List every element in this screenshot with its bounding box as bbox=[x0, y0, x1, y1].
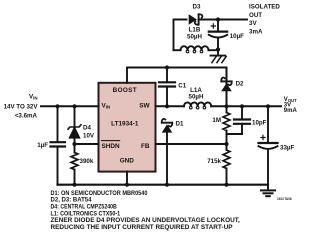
wire: output rail bbox=[211, 105, 281, 107]
svg-text:D1: ON SEMICONDUCTOR MBR0540: D1: ON SEMICONDUCTOR MBR0540 bbox=[51, 191, 149, 197]
wire: D3 cathode to isolated out bbox=[199, 19, 248, 21]
svg-text:D4: CENTRAL CMPZ5240B: D4: CENTRAL CMPZ5240B bbox=[51, 205, 118, 211]
resistor R 390k bbox=[74, 144, 76, 153]
capacitor C 1uF bbox=[51, 141, 66, 143]
diode D3 bbox=[189, 14, 203, 25]
svg-text:OUT: OUT bbox=[249, 12, 262, 19]
svg-text:<3.6mA: <3.6mA bbox=[15, 113, 38, 120]
svg-text:1µF: 1µF bbox=[37, 142, 48, 149]
node: L1B / 10uF / gnd junction bbox=[216, 47, 220, 51]
node: 33uF tap on rail bbox=[266, 104, 270, 108]
svg-text:14V TO 32V: 14V TO 32V bbox=[4, 103, 39, 110]
node: D4 / 390k / SHDN junction bbox=[72, 142, 76, 146]
svg-text:3V: 3V bbox=[249, 20, 257, 27]
node: 1uF tap bbox=[55, 104, 59, 108]
svg-text:390k: 390k bbox=[80, 158, 94, 165]
wire: boost top run to D2 bbox=[127, 68, 227, 107]
svg-text:50µH: 50µH bbox=[189, 94, 204, 101]
resistor R 715k bbox=[223, 150, 230, 168]
svg-text:10pF: 10pF bbox=[252, 119, 267, 126]
wire: SHDN pin bbox=[75, 143, 99, 145]
wire: BOOST riser bbox=[126, 68, 128, 83]
svg-text:715k: 715k bbox=[207, 158, 221, 165]
svg-text:FB: FB bbox=[141, 143, 150, 150]
ground symbol main bbox=[267, 185, 269, 190]
svg-text:BOOST: BOOST bbox=[113, 87, 137, 94]
IC U1 LT1934-1 body bbox=[99, 83, 156, 172]
wire: IC GND pin bbox=[126, 172, 128, 185]
notes text block bbox=[51, 191, 241, 231]
capacitor C 10pF bbox=[241, 106, 243, 119]
svg-text:ISOLATED: ISOLATED bbox=[249, 4, 280, 11]
svg-text:33µF: 33µF bbox=[280, 145, 294, 152]
capacitor C1 bbox=[166, 68, 168, 83]
svg-text:VIN: VIN bbox=[29, 93, 38, 100]
svg-text:D4: D4 bbox=[83, 124, 91, 131]
svg-text:9mA: 9mA bbox=[284, 108, 298, 114]
node: GND pin on rail bbox=[125, 183, 129, 187]
inductor L1B bbox=[174, 49, 181, 51]
wire: D4 lower lead bbox=[74, 138, 76, 144]
wire: FB pin bbox=[156, 143, 227, 145]
svg-text:1M: 1M bbox=[212, 117, 221, 124]
svg-text:D3: D3 bbox=[193, 3, 201, 10]
wire: ground rail bbox=[58, 184, 269, 186]
svg-text:ZENER DIODE D4 PROVIDES AN UND: ZENER DIODE D4 PROVIDES AN UNDERVOLTAGE … bbox=[51, 218, 241, 224]
wire: L1B left riser bbox=[174, 20, 187, 51]
svg-text:SHDN: SHDN bbox=[102, 143, 120, 150]
svg-text:50µH: 50µH bbox=[187, 33, 202, 40]
wire: D1 anode to ground rail bbox=[166, 132, 168, 184]
zener diode D4 bbox=[68, 125, 81, 138]
svg-text:D2: D2 bbox=[236, 81, 244, 88]
svg-text:3mA: 3mA bbox=[249, 28, 263, 35]
inductor L1A bbox=[184, 102, 211, 106]
svg-text:GND: GND bbox=[120, 157, 135, 164]
node: D4 tap bbox=[72, 104, 76, 108]
node: D1 on ground rail bbox=[165, 183, 169, 187]
svg-text:LT1934-1: LT1934-1 bbox=[111, 121, 139, 128]
svg-text:10V: 10V bbox=[83, 132, 95, 139]
wire: D4 upper lead bbox=[74, 106, 76, 127]
svg-text:D1: D1 bbox=[176, 121, 184, 128]
diode D2 bbox=[221, 78, 232, 92]
wire: 1uF upper lead bbox=[57, 106, 59, 142]
wire: 1uF lower lead to ground rail bbox=[57, 147, 59, 185]
node: 715k on ground rail bbox=[224, 183, 228, 187]
svg-text:C1: C1 bbox=[178, 82, 186, 89]
svg-text:SW: SW bbox=[139, 102, 150, 109]
diode D1 bbox=[162, 119, 173, 133]
wire: SW rail bbox=[156, 105, 185, 107]
node: 390k on ground rail bbox=[72, 183, 76, 187]
node: FB junction bbox=[224, 142, 228, 146]
wire: input rail VIN to IC bbox=[41, 105, 99, 107]
resistor R 1M bbox=[226, 106, 228, 112]
node: D2 / 1M junction on rail bbox=[224, 104, 228, 108]
ground symbol isolated (earth) bbox=[217, 50, 219, 56]
wire: 10pF bottom link bbox=[227, 133, 243, 135]
capacitor C 10uF polarized bbox=[217, 20, 219, 32]
node: 10pF tap on rail bbox=[240, 104, 244, 108]
svg-text:D2, D3: BAT54: D2, D3: BAT54 bbox=[51, 198, 93, 204]
node: SW / C1 / D1 junction bbox=[165, 104, 169, 108]
svg-text:10µF: 10µF bbox=[230, 33, 244, 40]
svg-text:L1: COILTRONICS CTX50-1: L1: COILTRONICS CTX50-1 bbox=[51, 211, 121, 217]
svg-text:1934 TA08: 1934 TA08 bbox=[277, 197, 292, 201]
node: C1 top junction bbox=[165, 65, 169, 69]
capacitor C 33uF polarized bbox=[267, 106, 269, 143]
svg-text:REDUCING THE INPUT CURRENT REQ: REDUCING THE INPUT CURRENT REQUIRED AT S… bbox=[51, 225, 233, 231]
node: 10uF top junction bbox=[216, 17, 220, 21]
